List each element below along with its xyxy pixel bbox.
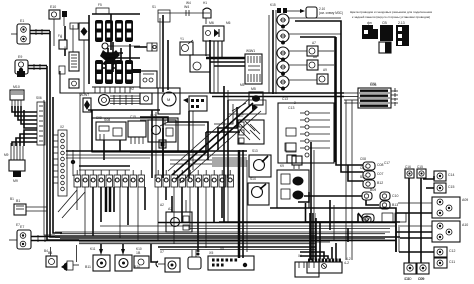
fusebox left rail — [88, 15, 90, 84]
staircase bundle center — [140, 104, 237, 160]
instrument bus bar — [269, 10, 276, 94]
svg-text:C13: C13 — [288, 106, 294, 110]
svg-text:K9: K9 — [280, 164, 284, 168]
svg-text:E9: E9 — [18, 55, 22, 59]
svg-text:S08: S08 — [96, 116, 102, 120]
svg-text:M6: M6 — [226, 21, 231, 25]
dark vertical bundle center — [239, 150, 247, 258]
svg-text:E7: E7 — [20, 225, 24, 229]
bundle down to connector X6 — [295, 213, 319, 277]
svg-text:X8: X8 — [196, 249, 200, 253]
svg-text:фн: фн — [367, 21, 372, 25]
lamp C11 — [434, 258, 455, 268]
svg-text:B12: B12 — [360, 175, 366, 179]
svg-text:C08: C08 — [360, 157, 366, 161]
relay K4 — [125, 20, 133, 42]
rear lamp cluster A10 — [396, 221, 468, 242]
ECU box outline — [278, 103, 334, 163]
connector C10 to other sheet — [300, 7, 343, 18]
connector E1 pair — [147, 43, 157, 51]
junction block small — [159, 140, 166, 148]
connector M10 — [10, 85, 24, 106]
svg-text:1B: 1B — [136, 251, 141, 255]
lamp C16 — [405, 165, 414, 178]
connector H2 — [140, 93, 152, 104]
relay K5 — [95, 60, 103, 84]
svg-text:S06: S06 — [36, 96, 42, 100]
tail lamp left — [9, 225, 31, 249]
fuse-relay box top cover — [92, 8, 140, 14]
svg-text:K15: K15 — [270, 3, 276, 7]
table output ticks — [391, 88, 398, 106]
headlamp E9 — [15, 55, 28, 77]
svg-text:K11: K11 — [90, 247, 96, 251]
svg-text:A7: A7 — [312, 41, 316, 45]
svg-text:S08: S08 — [104, 118, 110, 122]
svg-text:W1: W1 — [250, 49, 255, 53]
main connector strip row — [74, 170, 234, 187]
lamp B4 — [46, 251, 57, 267]
connector X1 pins — [69, 52, 79, 71]
svg-text:S14: S14 — [250, 177, 256, 181]
svg-text:E1: E1 — [20, 19, 24, 23]
wires from C16 C15 down — [409, 178, 421, 263]
lamp C14 — [423, 171, 454, 181]
rear connector strip 4-2 — [307, 259, 349, 274]
lamp module A9 — [317, 74, 328, 84]
box with pins C15 — [128, 121, 146, 144]
connector C10 small — [380, 192, 398, 200]
wire frame to strip — [79, 93, 81, 175]
fusebox center rail — [110, 14, 112, 50]
wire horn to right — [88, 109, 160, 111]
motor pump M circle — [158, 88, 180, 114]
lamp C09 bottom — [417, 263, 429, 281]
wire lamp E10 down — [53, 19, 55, 46]
svg-text:2.13: 2.13 — [398, 21, 405, 25]
legend swatch CB — [379, 21, 393, 53]
vertical wires crossing band right — [330, 200, 334, 240]
lamp module A8 — [307, 60, 334, 70]
svg-text:C15: C15 — [448, 185, 454, 189]
svg-text:S12: S12 — [150, 114, 156, 118]
fuse W7 — [83, 93, 91, 112]
svg-text:4-2: 4-2 — [346, 257, 351, 261]
wire bundle left of fusebox — [65, 23, 78, 56]
svg-text:M: M — [167, 97, 170, 102]
relay A2 bottom — [166, 196, 192, 232]
fuse F1 circle — [98, 42, 141, 73]
svg-text:C10: C10 — [404, 277, 410, 281]
top horn circuit line — [158, 5, 210, 22]
junction blob node X — [100, 50, 120, 66]
svg-text:C14: C14 — [448, 173, 454, 177]
ignition switch S1 — [249, 155, 271, 177]
svg-text:E10: E10 — [50, 5, 56, 9]
wires M6 down fan — [206, 41, 222, 62]
connector C07 — [363, 171, 383, 179]
wire label table C06 — [358, 83, 391, 108]
fusebox bottom teeth — [92, 87, 140, 93]
connector oval C11b — [363, 217, 371, 223]
ignition switch block — [148, 120, 176, 142]
svg-text:C11: C11 — [449, 260, 455, 264]
lamp C15b — [426, 183, 454, 193]
small connector grid right of relay block — [140, 71, 157, 88]
legend text — [350, 10, 432, 19]
lamp E10 — [49, 5, 60, 19]
wires between dash and band — [210, 40, 228, 222]
fusebox rail k3 — [129, 44, 131, 60]
gauge A3 — [277, 47, 307, 62]
svg-text:B11: B11 — [85, 265, 91, 269]
svg-text:A2: A2 — [160, 203, 164, 207]
main cross band — [210, 93, 358, 103]
svg-text:W4: W4 — [186, 1, 191, 5]
fuse W6 tall with diamond — [79, 23, 89, 93]
svg-text:B4: B4 — [44, 249, 48, 253]
long connector X5 — [208, 251, 254, 270]
svg-text:S1: S1 — [152, 5, 156, 9]
svg-text:M9: M9 — [13, 179, 18, 183]
connector A bottom-left — [14, 199, 47, 215]
relay K6 — [105, 60, 113, 84]
staircase strip to M9 — [12, 130, 37, 146]
wire ladder from E9 — [28, 64, 47, 70]
gauge A4 — [277, 61, 307, 76]
connector FB inside frame — [69, 79, 79, 88]
hatched connector S07 — [238, 120, 264, 144]
svg-text:X7: X7 — [160, 250, 164, 254]
svg-text:B12: B12 — [377, 181, 383, 185]
svg-text:F4: F4 — [58, 34, 62, 38]
svg-text:B09: B09 — [370, 188, 376, 192]
svg-text:A8: A8 — [313, 55, 317, 59]
svg-text:Y1: Y1 — [180, 37, 184, 41]
horizontal wires center-left — [66, 151, 247, 170]
sensor B11 — [85, 244, 110, 271]
svg-text:S13: S13 — [252, 149, 258, 153]
wires right bottom area — [348, 220, 399, 252]
motor M6 with diode — [203, 21, 224, 41]
fuse F7 — [59, 35, 67, 49]
svg-text:C06: C06 — [370, 82, 376, 86]
svg-text:X5: X5 — [220, 247, 224, 251]
svg-text:M10: M10 — [13, 85, 20, 89]
pin strip X2 — [53, 130, 67, 196]
thick band to connector W — [206, 58, 245, 66]
wire to C09 — [304, 188, 379, 205]
plug connector bottom left — [156, 258, 180, 272]
svg-text:M9: M9 — [4, 153, 9, 157]
double relay box — [277, 170, 309, 208]
svg-text:4-2: 4-2 — [344, 261, 349, 265]
sensor B10 — [115, 244, 140, 271]
wire fusebox to E1 connector — [134, 46, 147, 48]
frame box left-center — [60, 71, 210, 93]
legend swatch BN — [362, 21, 378, 39]
svg-text:W4: W4 — [184, 5, 189, 9]
wire diagonals strip to bundle — [58, 190, 85, 218]
main left harness bundle — [44, 31, 79, 240]
connector C08 — [363, 162, 383, 170]
gauge A2 — [277, 30, 341, 45]
svg-text:C17: C17 — [384, 161, 390, 165]
wire top-left vertical pair — [160, 15, 168, 92]
pin chain in ECU — [300, 111, 330, 157]
right frame verticals — [311, 142, 314, 213]
staircase wires from M10 — [12, 106, 37, 128]
DIP module C8 — [183, 96, 207, 111]
svg-text:X2: X2 — [60, 125, 64, 129]
wires under S08 — [104, 140, 120, 160]
svg-text:C07: C07 — [377, 172, 383, 176]
small box A2 top right of switches — [286, 143, 302, 169]
svg-text:W7: W7 — [80, 93, 85, 97]
svg-text:C15: C15 — [130, 115, 136, 119]
svg-text:X6: X6 — [298, 254, 302, 258]
svg-text:X5: X5 — [209, 251, 213, 255]
bottom harness band — [55, 223, 400, 250]
node dot W — [71, 150, 75, 176]
svg-text:A9: A9 — [323, 68, 327, 72]
connector block W — [245, 49, 262, 84]
svg-text:X1: X1 — [64, 46, 68, 50]
diagonal harness weave center — [168, 99, 261, 183]
lamp C10b bottom — [404, 263, 416, 281]
gauge A5 — [277, 76, 317, 91]
headlamp E1 — [11, 19, 30, 44]
svg-text:F5: F5 — [98, 3, 102, 7]
svg-text:B13: B13 — [392, 203, 398, 207]
box S08 control unit — [96, 118, 126, 140]
wires below strip — [77, 187, 222, 252]
rear lamp cluster A09 — [396, 197, 468, 218]
lamp S9 — [134, 244, 158, 268]
control units outer box — [92, 110, 178, 152]
wires upper right of band — [219, 221, 400, 223]
svg-text:C08: C08 — [377, 163, 383, 167]
svg-text:M5: M5 — [251, 87, 256, 91]
light switch S2 — [248, 183, 269, 205]
svg-text:W7: W7 — [84, 93, 89, 97]
svg-text:C09: C09 — [418, 277, 424, 281]
horn H2 coil — [99, 95, 141, 106]
relay K3 — [115, 20, 123, 42]
svg-text:B1: B1 — [10, 197, 14, 201]
lamp C15 — [417, 165, 426, 178]
svg-text:A09: A09 — [462, 198, 468, 202]
relay K8 — [125, 60, 133, 84]
relay K7 — [115, 60, 123, 84]
svg-text:к задней панели (вид со сторон: к задней панели (вид со стороны установк… — [352, 15, 430, 19]
relay M5 — [249, 87, 263, 105]
dashboard outline right — [295, 21, 341, 162]
svg-text:СВ: СВ — [382, 21, 387, 25]
washer pump Y1 — [180, 40, 193, 55]
connector K6 — [62, 11, 67, 26]
relay K2 — [105, 20, 113, 42]
svg-text:H1: H1 — [203, 1, 207, 5]
horn H1 — [203, 8, 211, 24]
svg-text:H2: H2 — [130, 87, 134, 91]
svg-text:(см. схему M3C): (см. схему M3C) — [319, 11, 343, 15]
svg-text:W1: W1 — [246, 49, 251, 53]
small box below X1 — [59, 66, 65, 74]
svg-text:C10: C10 — [392, 194, 398, 198]
T plug connector — [188, 250, 201, 269]
svg-text:C15: C15 — [417, 165, 423, 169]
svg-text:A10: A10 — [462, 223, 468, 227]
misc center wires — [130, 132, 247, 166]
wire ladder from headlamp E1 — [30, 29, 50, 35]
center vertical feeders — [163, 100, 228, 178]
junction box above band — [270, 192, 396, 252]
staircase to rear connector — [300, 213, 336, 259]
connector B12 — [363, 180, 383, 188]
svg-text:C16: C16 — [405, 165, 411, 169]
connector K15 black pair — [277, 8, 300, 13]
svg-text:2: 2 — [294, 101, 296, 105]
center vertical pair — [152, 110, 163, 178]
lamp B4 feed — [50, 247, 52, 256]
ladder tail lamp — [31, 235, 55, 242]
svg-text:C07: C07 — [360, 166, 366, 170]
svg-text:C13: C13 — [282, 97, 288, 101]
svg-text:B1: B1 — [16, 199, 20, 203]
svg-text:K10: K10 — [136, 247, 142, 251]
svg-text:C12: C12 — [449, 249, 455, 253]
wires from dashboard right to connectors — [336, 37, 363, 260]
box around horn area — [228, 100, 266, 114]
svg-text:M5: M5 — [240, 83, 245, 87]
connector M9 — [9, 143, 25, 183]
lamp module A7 — [307, 46, 334, 56]
wiper motor assembly — [190, 55, 210, 72]
svg-text:E7: E7 — [16, 223, 20, 227]
connector strip S06 — [37, 102, 45, 145]
svg-text:M6: M6 — [209, 21, 214, 25]
legend swatch 2.13 — [396, 21, 409, 46]
speaker symbol — [61, 245, 79, 271]
svg-text:Цвета проводов и гнездовых раз: Цвета проводов и гнездовых разъемов для … — [350, 10, 432, 14]
relay K1 — [95, 20, 103, 42]
small boxes in ECU — [285, 128, 296, 163]
small oval connector C2B — [362, 214, 374, 222]
gauge A1 — [277, 14, 341, 29]
small boxes top right bottom area — [382, 213, 406, 222]
svg-text:S07: S07 — [238, 114, 244, 118]
connector B13 — [380, 201, 398, 209]
lamp C12 — [399, 247, 455, 257]
